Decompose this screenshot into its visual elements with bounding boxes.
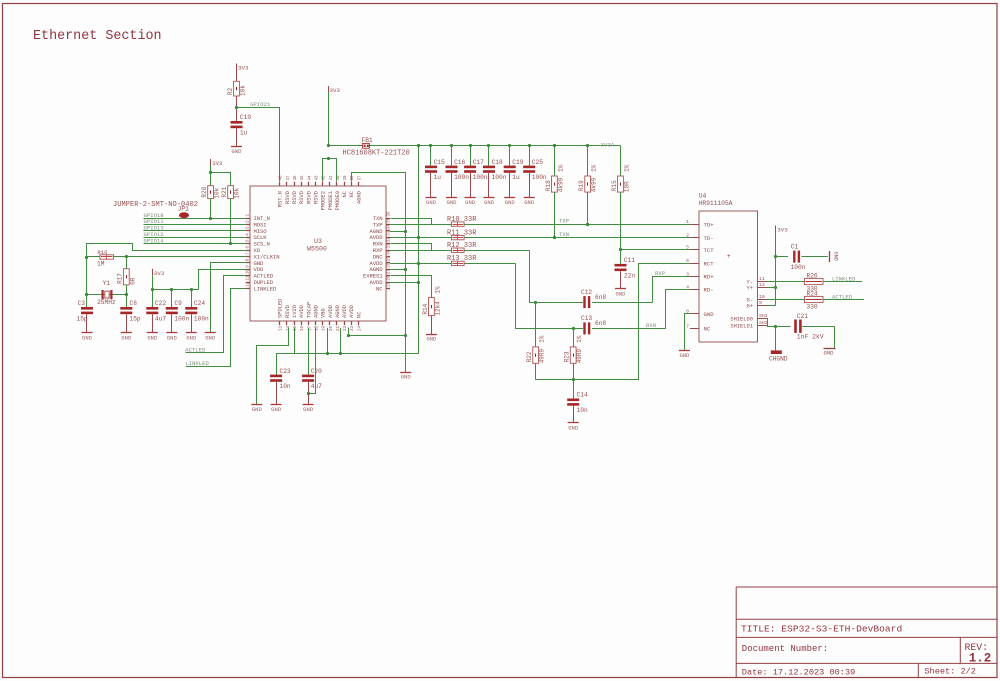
- svg-text:ACTLED: ACTLED: [832, 294, 853, 301]
- svg-text:TXP: TXP: [559, 217, 570, 224]
- svg-text:FB1: FB1: [362, 137, 373, 144]
- svg-text:R13 33R: R13 33R: [447, 255, 477, 263]
- svg-text:37: 37: [358, 175, 362, 181]
- svg-text:4k99: 4k99: [557, 177, 564, 192]
- svg-text:U4: U4: [699, 193, 707, 200]
- svg-text:R24: R24: [807, 290, 818, 297]
- svg-text:0R: 0R: [129, 277, 136, 285]
- svg-text:GND: GND: [82, 334, 93, 341]
- svg-text:GND: GND: [524, 199, 535, 206]
- svg-text:GND: GND: [568, 424, 579, 431]
- svg-text:C13: C13: [581, 315, 592, 322]
- svg-text:GND: GND: [679, 352, 690, 359]
- svg-text:1u: 1u: [434, 174, 442, 181]
- svg-text:C12: C12: [581, 289, 592, 296]
- svg-text:SHIELD1: SHIELD1: [730, 323, 753, 329]
- svg-text:47: 47: [287, 175, 291, 181]
- svg-text:1V2O: 1V2O: [292, 305, 298, 318]
- svg-text:1%: 1%: [434, 286, 441, 294]
- svg-text:LINKLED: LINKLED: [254, 285, 278, 292]
- svg-text:C1: C1: [791, 243, 799, 250]
- svg-text:C18: C18: [492, 159, 503, 166]
- svg-text:PMODE1: PMODE1: [328, 191, 334, 210]
- svg-text:SPDLED: SPDLED: [278, 299, 284, 318]
- svg-text:HR911105A: HR911105A: [699, 200, 733, 207]
- svg-text:Ethernet Section: Ethernet Section: [33, 29, 162, 44]
- svg-text:RD-: RD-: [704, 287, 714, 294]
- svg-text:C25: C25: [532, 159, 543, 166]
- svg-text:TCT: TCT: [704, 247, 715, 254]
- svg-text:AVDD: AVDD: [328, 305, 334, 318]
- svg-text:C21: C21: [797, 313, 808, 320]
- svg-text:3: 3: [686, 271, 689, 277]
- svg-text:C20: C20: [311, 368, 322, 375]
- svg-text:10n: 10n: [577, 407, 588, 414]
- svg-text:GND: GND: [505, 199, 516, 206]
- svg-text:R18: R18: [545, 180, 552, 191]
- svg-text:10k: 10k: [214, 187, 221, 198]
- svg-text:SH2: SH2: [759, 320, 768, 326]
- svg-text:1.2: 1.2: [969, 651, 992, 665]
- svg-text:46: 46: [294, 175, 298, 181]
- svg-text:1nF 2kV: 1nF 2kV: [797, 334, 824, 341]
- svg-text:GND: GND: [447, 199, 458, 206]
- svg-text:330: 330: [807, 304, 818, 311]
- svg-text:R11 33R: R11 33R: [447, 229, 477, 237]
- svg-text:AGND: AGND: [356, 191, 362, 204]
- svg-text:9: 9: [759, 300, 762, 306]
- svg-text:16: 16: [301, 325, 305, 331]
- svg-text:4k99: 4k99: [591, 177, 598, 192]
- svg-text:24: 24: [358, 325, 362, 331]
- svg-text:GND: GND: [252, 406, 263, 413]
- svg-text:1u: 1u: [512, 174, 520, 181]
- svg-text:29: 29: [388, 256, 392, 262]
- svg-text:12: 12: [247, 281, 251, 287]
- svg-text:+: +: [727, 253, 731, 260]
- svg-text:3V3: 3V3: [212, 160, 223, 167]
- svg-text:GND: GND: [401, 373, 412, 380]
- svg-text:JUMPER-2-SMT-NO-0402: JUMPER-2-SMT-NO-0402: [113, 201, 198, 209]
- svg-text:22: 22: [344, 325, 348, 331]
- svg-text:3V3: 3V3: [330, 87, 341, 94]
- svg-text:C19: C19: [512, 159, 523, 166]
- svg-text:R16: R16: [97, 249, 107, 256]
- svg-text:6n8: 6n8: [595, 294, 606, 301]
- svg-text:R21: R21: [221, 186, 228, 197]
- svg-text:13: 13: [280, 325, 284, 331]
- svg-text:39: 39: [344, 175, 348, 181]
- svg-text:C8: C8: [130, 300, 138, 307]
- svg-text:49R9: 49R9: [576, 348, 583, 363]
- svg-text:C15: C15: [434, 159, 445, 166]
- svg-text:CHGND: CHGND: [769, 355, 788, 362]
- svg-text:42: 42: [323, 175, 327, 181]
- svg-text:GND: GND: [205, 334, 216, 341]
- svg-text:40: 40: [337, 175, 341, 181]
- svg-text:41: 41: [330, 175, 334, 181]
- svg-text:C9: C9: [174, 300, 182, 307]
- svg-text:Date: 17.12.2023 00:39: Date: 17.12.2023 00:39: [742, 668, 855, 678]
- svg-text:NC: NC: [704, 326, 711, 333]
- svg-text:R14: R14: [422, 303, 429, 314]
- svg-text:NC: NC: [349, 191, 355, 197]
- svg-text:1%: 1%: [591, 164, 598, 172]
- svg-text:NC: NC: [356, 312, 362, 318]
- svg-text:R19: R19: [578, 180, 585, 191]
- svg-text:GND: GND: [704, 311, 715, 318]
- svg-text:100n: 100n: [492, 174, 507, 181]
- svg-text:RSVD: RSVD: [292, 191, 298, 204]
- svg-text:12k4: 12k4: [434, 301, 441, 316]
- svg-text:PMODE2: PMODE2: [321, 191, 327, 210]
- svg-text:GND: GND: [833, 252, 839, 261]
- svg-text:11: 11: [247, 275, 251, 281]
- svg-text:GND: GND: [121, 334, 132, 341]
- svg-text:RSVD: RSVD: [306, 191, 312, 204]
- svg-text:Y+: Y+: [747, 286, 753, 292]
- svg-text:44: 44: [308, 175, 312, 181]
- svg-text:100n: 100n: [194, 315, 209, 322]
- svg-text:3V3: 3V3: [238, 65, 249, 72]
- svg-text:C16: C16: [454, 159, 465, 166]
- svg-text:100n: 100n: [532, 174, 547, 181]
- svg-text:PMODE0: PMODE0: [335, 191, 341, 210]
- svg-text:GND: GND: [167, 334, 178, 341]
- svg-text:GND: GND: [147, 334, 158, 341]
- svg-text:1M: 1M: [97, 261, 105, 268]
- svg-text:NC: NC: [342, 191, 348, 197]
- svg-text:GND: GND: [824, 349, 835, 356]
- svg-text:1%: 1%: [557, 164, 564, 172]
- svg-text:G+: G+: [747, 304, 753, 310]
- svg-text:RST_N: RST_N: [278, 191, 284, 207]
- svg-text:20: 20: [330, 325, 334, 331]
- svg-text:10n: 10n: [280, 383, 291, 390]
- svg-text:LINKLED: LINKLED: [185, 360, 209, 367]
- svg-text:4: 4: [686, 285, 689, 291]
- svg-text:100n: 100n: [473, 174, 488, 181]
- svg-text:45: 45: [301, 175, 305, 181]
- svg-text:TXN: TXN: [559, 231, 569, 238]
- svg-text:10R: 10R: [624, 181, 631, 192]
- svg-text:GND: GND: [426, 199, 437, 206]
- svg-text:18: 18: [315, 325, 319, 331]
- svg-text:RD+: RD+: [704, 274, 715, 281]
- svg-text:SHIELD0: SHIELD0: [730, 317, 753, 323]
- svg-text:23: 23: [351, 325, 355, 331]
- svg-text:10k: 10k: [234, 187, 241, 198]
- svg-text:10k: 10k: [240, 85, 247, 96]
- svg-text:R15: R15: [611, 180, 618, 191]
- svg-text:2: 2: [686, 233, 689, 239]
- svg-text:4u7: 4u7: [311, 383, 322, 390]
- svg-text:R23: R23: [564, 351, 571, 362]
- svg-text:C23: C23: [280, 368, 291, 375]
- svg-text:C22: C22: [155, 300, 166, 307]
- svg-text:R17: R17: [117, 273, 124, 284]
- svg-text:43: 43: [315, 175, 319, 181]
- svg-text:100n: 100n: [454, 174, 469, 181]
- svg-text:R26: R26: [807, 272, 818, 279]
- svg-text:GND: GND: [186, 334, 197, 341]
- svg-text:RXN: RXN: [646, 322, 656, 329]
- svg-text:100n: 100n: [174, 315, 189, 322]
- svg-text:10: 10: [759, 294, 765, 300]
- svg-text:TOCAP: TOCAP: [306, 302, 312, 318]
- svg-text:100n: 100n: [791, 264, 806, 271]
- svg-text:3V3: 3V3: [777, 227, 788, 234]
- svg-text:TD+: TD+: [704, 221, 715, 228]
- svg-text:Y1: Y1: [103, 280, 111, 287]
- svg-text:GND: GND: [484, 199, 495, 206]
- svg-text:LINKLED: LINKLED: [832, 276, 856, 283]
- svg-text:4u7: 4u7: [155, 315, 166, 322]
- svg-text:HC81608KT-221T20: HC81608KT-221T20: [343, 150, 410, 158]
- svg-text:GND: GND: [232, 148, 243, 155]
- svg-text:10: 10: [247, 269, 251, 275]
- svg-text:SH1: SH1: [759, 313, 768, 319]
- svg-text:GND: GND: [426, 335, 437, 342]
- svg-text:25MHz: 25MHz: [97, 299, 116, 306]
- svg-text:GND: GND: [616, 290, 627, 297]
- svg-text:TD-: TD-: [704, 235, 714, 242]
- svg-text:AVDD: AVDD: [342, 305, 348, 318]
- svg-text:C14: C14: [577, 392, 588, 399]
- svg-text:VBG: VBG: [321, 308, 327, 318]
- svg-text:12: 12: [759, 282, 765, 288]
- svg-text:NC: NC: [376, 285, 383, 292]
- svg-text:AGND: AGND: [335, 305, 341, 318]
- svg-text:C10: C10: [240, 114, 251, 121]
- svg-text:RSVD: RSVD: [313, 191, 319, 204]
- svg-text:1u: 1u: [240, 129, 248, 136]
- svg-text:1%: 1%: [539, 335, 546, 343]
- svg-text:1%: 1%: [576, 335, 583, 343]
- svg-text:3V3: 3V3: [154, 270, 165, 277]
- svg-text:7: 7: [686, 324, 689, 330]
- svg-text:1: 1: [686, 219, 689, 225]
- svg-text:R10 33R: R10 33R: [447, 216, 477, 224]
- svg-text:22n: 22n: [624, 272, 635, 279]
- svg-text:1%: 1%: [624, 164, 631, 172]
- svg-text:36: 36: [388, 211, 392, 217]
- svg-text:19: 19: [323, 325, 327, 331]
- svg-text:RXP: RXP: [655, 270, 666, 277]
- svg-text:RSVD: RSVD: [285, 191, 291, 204]
- svg-text:W5500: W5500: [307, 246, 327, 253]
- svg-text:U3: U3: [314, 238, 322, 245]
- svg-text:6n8: 6n8: [595, 320, 606, 327]
- svg-text:RSVD: RSVD: [285, 305, 291, 318]
- svg-text:5: 5: [686, 245, 689, 251]
- svg-text:11: 11: [759, 276, 765, 282]
- svg-text:C17: C17: [473, 159, 484, 166]
- svg-text:TITLE: ESP32-S3-ETH-DevBoard: TITLE: ESP32-S3-ETH-DevBoard: [741, 624, 902, 635]
- svg-text:AVDD: AVDD: [349, 305, 355, 318]
- svg-text:AGND: AGND: [313, 305, 319, 318]
- svg-text:GND: GND: [271, 406, 282, 413]
- svg-text:R12 33R: R12 33R: [447, 242, 477, 250]
- svg-text:GND: GND: [303, 406, 314, 413]
- svg-text:3V3A: 3V3A: [601, 142, 615, 149]
- svg-text:Document Number:: Document Number:: [742, 644, 828, 654]
- svg-text:RCT: RCT: [704, 260, 715, 267]
- svg-text:15p: 15p: [130, 315, 141, 322]
- svg-text:GND: GND: [465, 199, 476, 206]
- svg-text:48: 48: [280, 175, 284, 181]
- svg-text:6: 6: [686, 258, 689, 264]
- svg-text:49R9: 49R9: [539, 348, 546, 363]
- svg-text:C3: C3: [78, 300, 86, 307]
- svg-text:AVDD: AVDD: [299, 305, 305, 318]
- svg-text:C11: C11: [624, 257, 635, 264]
- svg-text:ACTLED: ACTLED: [185, 346, 206, 353]
- svg-text:Sheet: 2/2: Sheet: 2/2: [924, 667, 976, 677]
- svg-text:R20: R20: [201, 186, 208, 197]
- svg-text:C24: C24: [194, 300, 205, 307]
- svg-text:R2: R2: [227, 87, 234, 95]
- svg-text:R22: R22: [526, 351, 533, 362]
- svg-text:RSVD: RSVD: [299, 191, 305, 204]
